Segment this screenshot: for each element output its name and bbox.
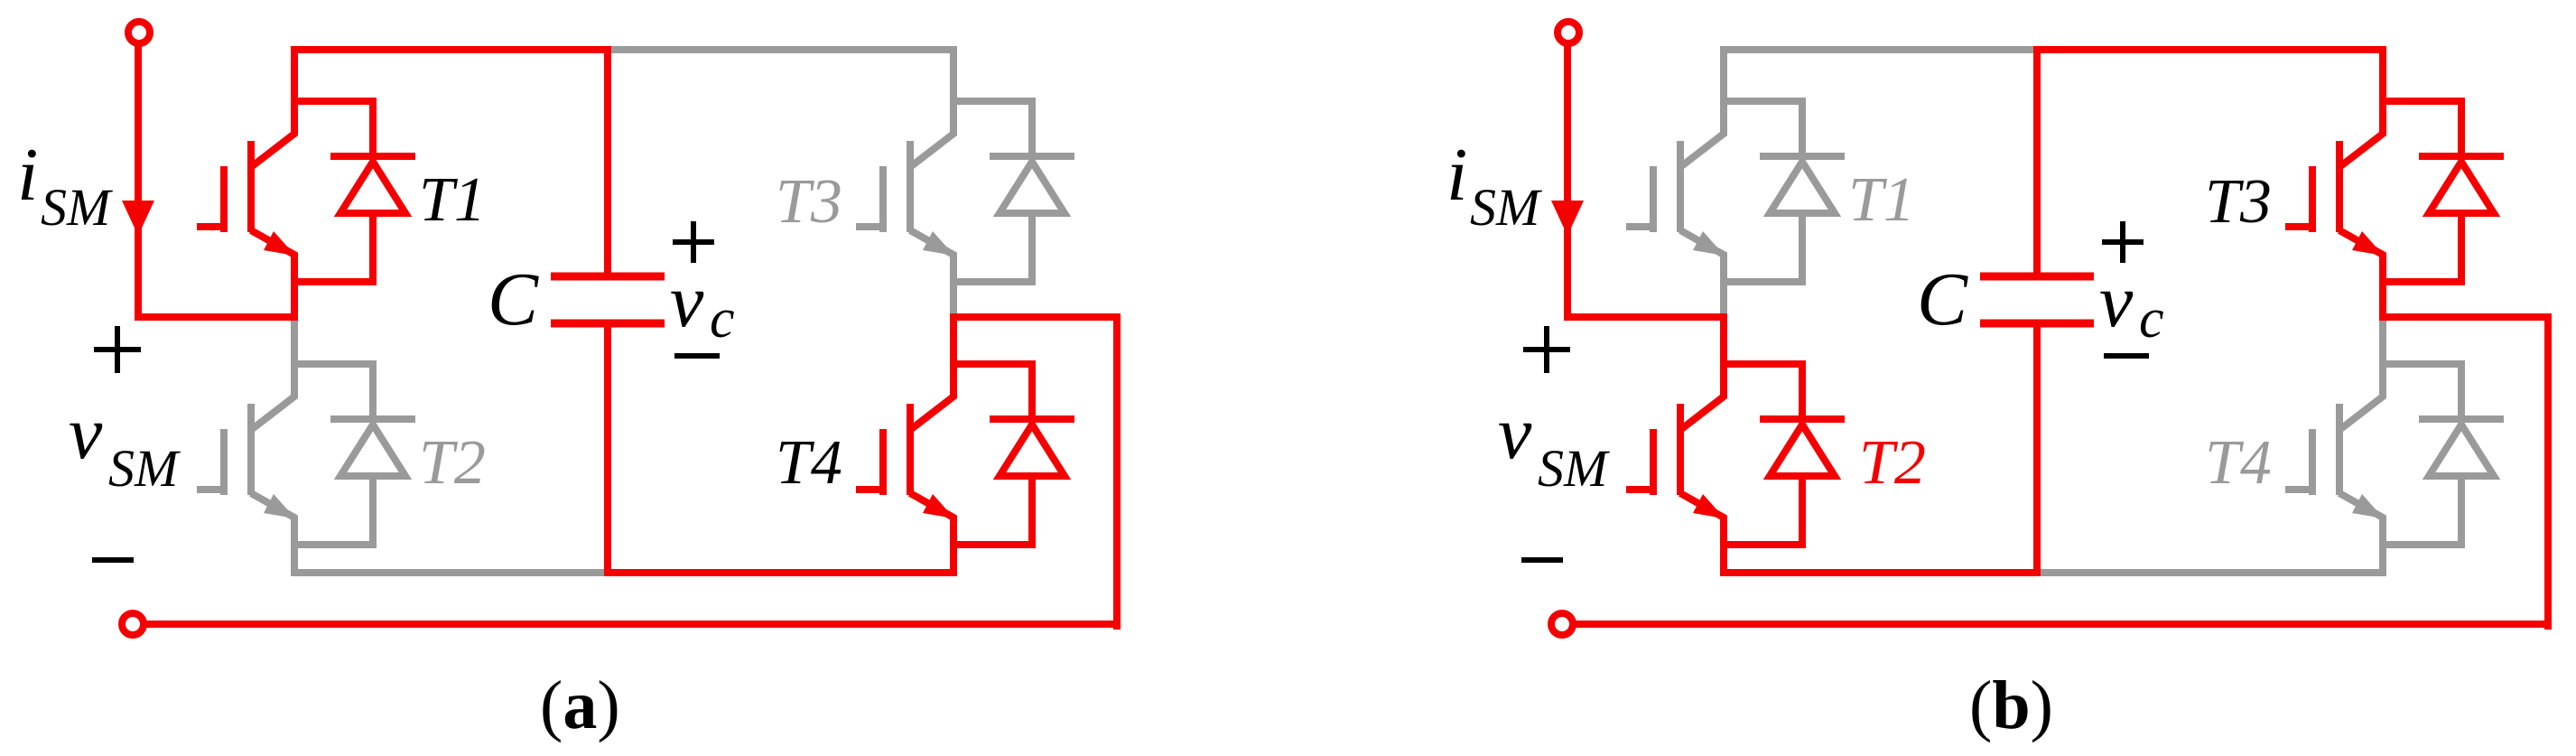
wire: T3 collector lead from top rail (2379, 46, 2386, 101)
svg-text:T4: T4 (2205, 428, 2272, 498)
wire: capacitor bottom lead + red bottom rail (capacitor to T4) (604, 323, 957, 573)
svg-text:v: v (69, 391, 103, 475)
svg-text:i: i (1446, 133, 1467, 217)
wire: bottom rail gray segment (capacitor to T4 emitter) (2037, 569, 2386, 576)
svg-text:v: v (2099, 259, 2134, 343)
transistor T4 (IGBT) (2339, 360, 2383, 548)
transistor T3 (IGBT) (910, 98, 953, 285)
wire: top rail red segment (capacitor to T3) + capacitor top lead (2037, 50, 2386, 273)
svg-text:T1: T1 (1848, 165, 1915, 235)
wire: T2 emitter node (1720, 541, 1802, 548)
terminal: input terminal (top) (128, 22, 150, 43)
transistor T2 (IGBT) (251, 360, 294, 548)
wire: top rail gray segment (T1 to capacitor) (1720, 46, 2037, 53)
wire: T1 emitter tail (gray) (1720, 282, 1727, 313)
wire: T1 emitter node (1720, 278, 1802, 285)
transistor T1 (IGBT) (1680, 98, 1724, 285)
svg-text:C: C (488, 257, 539, 341)
diode T4 (antiparallel) (990, 360, 1074, 548)
svg-text:SM: SM (1470, 178, 1542, 237)
arrow: i_SM current direction (122, 201, 154, 236)
wire: midpoint node to output branch and bottom line (950, 313, 1121, 321)
wire: T1 collector lead from top rail (291, 46, 298, 101)
transistor T4 (IGBT) (910, 360, 953, 548)
wire: T3 collector node (2379, 98, 2461, 105)
wire: T4 collector node (950, 360, 1032, 368)
wire: capacitor bottom lead + red bottom rail (T2 to capacitor) (1720, 323, 2041, 573)
wire: T3 emitter tail (red) (2379, 282, 2386, 321)
wire: T2 collector lead (red) (1720, 313, 1727, 364)
wire: T1 emitter tail (red) (291, 282, 298, 321)
wire: T3 collector node (950, 98, 1032, 105)
svg-text:T2: T2 (419, 428, 486, 498)
wire: T3 emitter node (2379, 278, 2461, 285)
wire: T1 collector node (1720, 98, 1802, 105)
diode T2 (antiparallel) (1760, 360, 1845, 548)
svg-text:v: v (670, 259, 704, 343)
wire: T2 collector node (1720, 360, 1802, 368)
label: v_SM minus sign (1521, 557, 1563, 563)
wire: T2 collector node (291, 360, 373, 368)
transistor T2 (IGBT) (1680, 360, 1724, 548)
svg-text:T4: T4 (776, 428, 842, 498)
wire: T1 collector lead from top rail (1720, 46, 1727, 101)
wire: T4 collector lead (gray) (2379, 321, 2386, 364)
svg-text:i: i (17, 133, 38, 217)
wire: T4 emitter node (950, 541, 1032, 548)
wire: T2 emitter lead to bottom rail (1720, 545, 1727, 576)
wire: T2 emitter node (291, 541, 373, 548)
svg-text:T3: T3 (776, 167, 842, 237)
terminal: output terminal (bottom) (1551, 613, 1573, 635)
label: v_SM plus sign (1523, 326, 1570, 373)
svg-text:C: C (1917, 257, 1968, 341)
wire: top rail red segment (T1 to capacitor) + capacitor top lead (291, 50, 608, 273)
capacitor C plates (551, 273, 665, 281)
label: v_SM plus sign (94, 326, 141, 373)
svg-text:(b): (b) (1969, 667, 2053, 743)
wire: top rail gray segment (capacitor to T3) (611, 46, 957, 53)
wire: T4 emitter node (2379, 541, 2461, 548)
wire: midpoint node to output branch and bottom line (2379, 313, 2552, 321)
wire: T3 emitter node (950, 278, 1032, 285)
diode T2 (antiparallel) (330, 360, 415, 548)
label: v_c plus sign (2102, 221, 2144, 263)
diode T1 (antiparallel) (330, 98, 415, 285)
wire: T3 collector lead from top rail (950, 46, 957, 101)
svg-text:c: c (710, 288, 735, 350)
wire: input lead down to + node (138, 43, 298, 317)
svg-text:T3: T3 (2205, 167, 2272, 237)
wire: T2 collector lead (gray) (291, 321, 298, 364)
transistor T1 (IGBT) (251, 98, 294, 285)
terminal: input terminal (top) (1558, 22, 1579, 43)
svg-text:(a): (a) (540, 667, 620, 743)
wire: T4 collector lead (red) (950, 313, 957, 364)
terminal: output terminal (bottom) (122, 613, 144, 635)
wire: T2 emitter lead to bottom rail (291, 545, 298, 576)
label: v_SM minus sign (92, 557, 134, 563)
svg-text:T1: T1 (419, 165, 486, 235)
diode T1 (antiparallel) (1760, 98, 1845, 285)
svg-text:c: c (2139, 288, 2164, 350)
diode T3 (antiparallel) (990, 98, 1074, 285)
svg-text:SM: SM (41, 178, 113, 237)
transistor T3 (IGBT) (2339, 98, 2383, 285)
svg-text:SM: SM (108, 439, 181, 498)
wire: T3 emitter tail (gray) (950, 282, 957, 313)
wire: T1 collector node (291, 98, 373, 105)
diode T3 (antiparallel) (2419, 98, 2504, 285)
label: v_c minus sign (674, 353, 720, 359)
wire: T1 emitter node (291, 278, 373, 285)
wire: T4 emitter lead to bottom rail (950, 545, 957, 576)
capacitor C plates (1980, 273, 2094, 281)
wire: T4 collector node (2379, 360, 2461, 368)
svg-text:v: v (1498, 391, 1532, 475)
svg-text:SM: SM (1538, 439, 1610, 498)
label: v_c minus sign (2104, 353, 2149, 359)
diode T4 (antiparallel) (2419, 360, 2504, 548)
arrow: i_SM current direction (1551, 201, 1584, 236)
wire: T4 emitter lead to bottom rail (2379, 545, 2386, 576)
wire: bottom rail gray segment (T2 emitter to capacitor) (291, 569, 608, 576)
wire: input lead down to + node (1567, 43, 1727, 317)
label: v_c plus sign (673, 221, 714, 263)
svg-text:T2: T2 (1859, 428, 1926, 498)
